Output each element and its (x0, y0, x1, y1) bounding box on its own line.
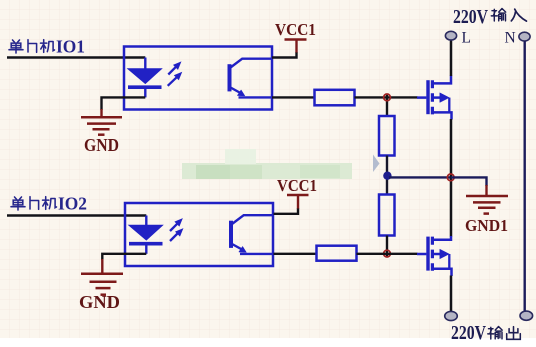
wire IO1 to optocoupler (7, 56, 145, 58)
terminal output right (520, 311, 533, 320)
svg-text:220V: 220V (451, 322, 486, 344)
svg-text:GND1: GND1 (465, 216, 508, 235)
optocoupler U1 box (124, 47, 272, 110)
wire Q1 source down through node C (450, 119, 453, 237)
ground GND (bottom) (81, 274, 123, 295)
resistor R4 (lower vertical) (379, 195, 395, 236)
wire cathode U2 to GND (102, 254, 146, 260)
LED D2 of optocoupler U2 (129, 216, 163, 254)
svg-text:N: N (505, 30, 516, 47)
junction node C (447, 174, 454, 181)
label MCU IO1 (9, 37, 85, 57)
wire node C to GND1 (451, 177, 487, 186)
terminal N (519, 32, 530, 41)
MOSFET Q1 (417, 76, 452, 120)
watermark gray arrow (373, 155, 380, 173)
ground GND1 (466, 185, 508, 214)
wire Q2 source to output terminal (450, 276, 453, 312)
power VCC1 (bottom) (287, 195, 309, 209)
wire L to Q1 drain (450, 41, 453, 77)
light arrows of U1 (168, 63, 181, 86)
wire cathode U1 to GND (102, 97, 146, 110)
wire N down to output (524, 41, 526, 311)
optocoupler U2 box (125, 203, 273, 266)
resistor R3 (upper vertical) (379, 116, 395, 156)
bottom white band (0, 338, 536, 347)
watermark green blob (182, 149, 352, 179)
svg-text:L: L (462, 30, 471, 47)
wire R1 to gate M1 (355, 96, 418, 98)
power VCC1 (top) (285, 40, 307, 53)
wire junction1 down to R3 (386, 94, 388, 117)
svg-text:IO2: IO2 (58, 194, 87, 214)
resistor R1 (top horizontal) (315, 90, 355, 106)
light arrows of U2 (170, 220, 182, 241)
wire U2 emitter to R2 (274, 253, 317, 255)
svg-text:GND: GND (79, 292, 120, 312)
svg-text:VCC1: VCC1 (277, 176, 317, 195)
terminal L (445, 31, 456, 40)
wire R2 to gate M2 (357, 253, 418, 255)
LED D1 of optocoupler U1 (128, 58, 162, 98)
wire node B to node C (389, 176, 451, 178)
svg-text:VCC1: VCC1 (275, 20, 316, 39)
junction node A (384, 94, 391, 101)
wire U1 emitter to R1 (272, 96, 315, 98)
ground GND (top) (81, 117, 122, 134)
wire collector U1 to VCC1 (272, 52, 297, 58)
svg-text:220V: 220V (453, 6, 488, 28)
wire IO2 to optocoupler (7, 214, 146, 216)
MOSFET Q2 (417, 236, 452, 276)
label 220V input (453, 6, 527, 28)
junction dot node B (383, 172, 391, 180)
label 220V output (451, 322, 520, 344)
wire R3 to R4 (386, 156, 388, 195)
svg-text:IO1: IO1 (56, 37, 85, 57)
resistor R2 (bottom horizontal) (317, 246, 357, 261)
phototransistor of U1 (230, 59, 272, 98)
phototransistor of U2 (231, 215, 273, 254)
wire collector U2 to VCC1 (274, 208, 299, 214)
terminal output left (445, 311, 458, 320)
junction node D (384, 250, 391, 257)
label MCU IO2 (11, 194, 87, 214)
wire R4 to junction2 (386, 236, 388, 258)
svg-text:GND: GND (84, 135, 119, 155)
